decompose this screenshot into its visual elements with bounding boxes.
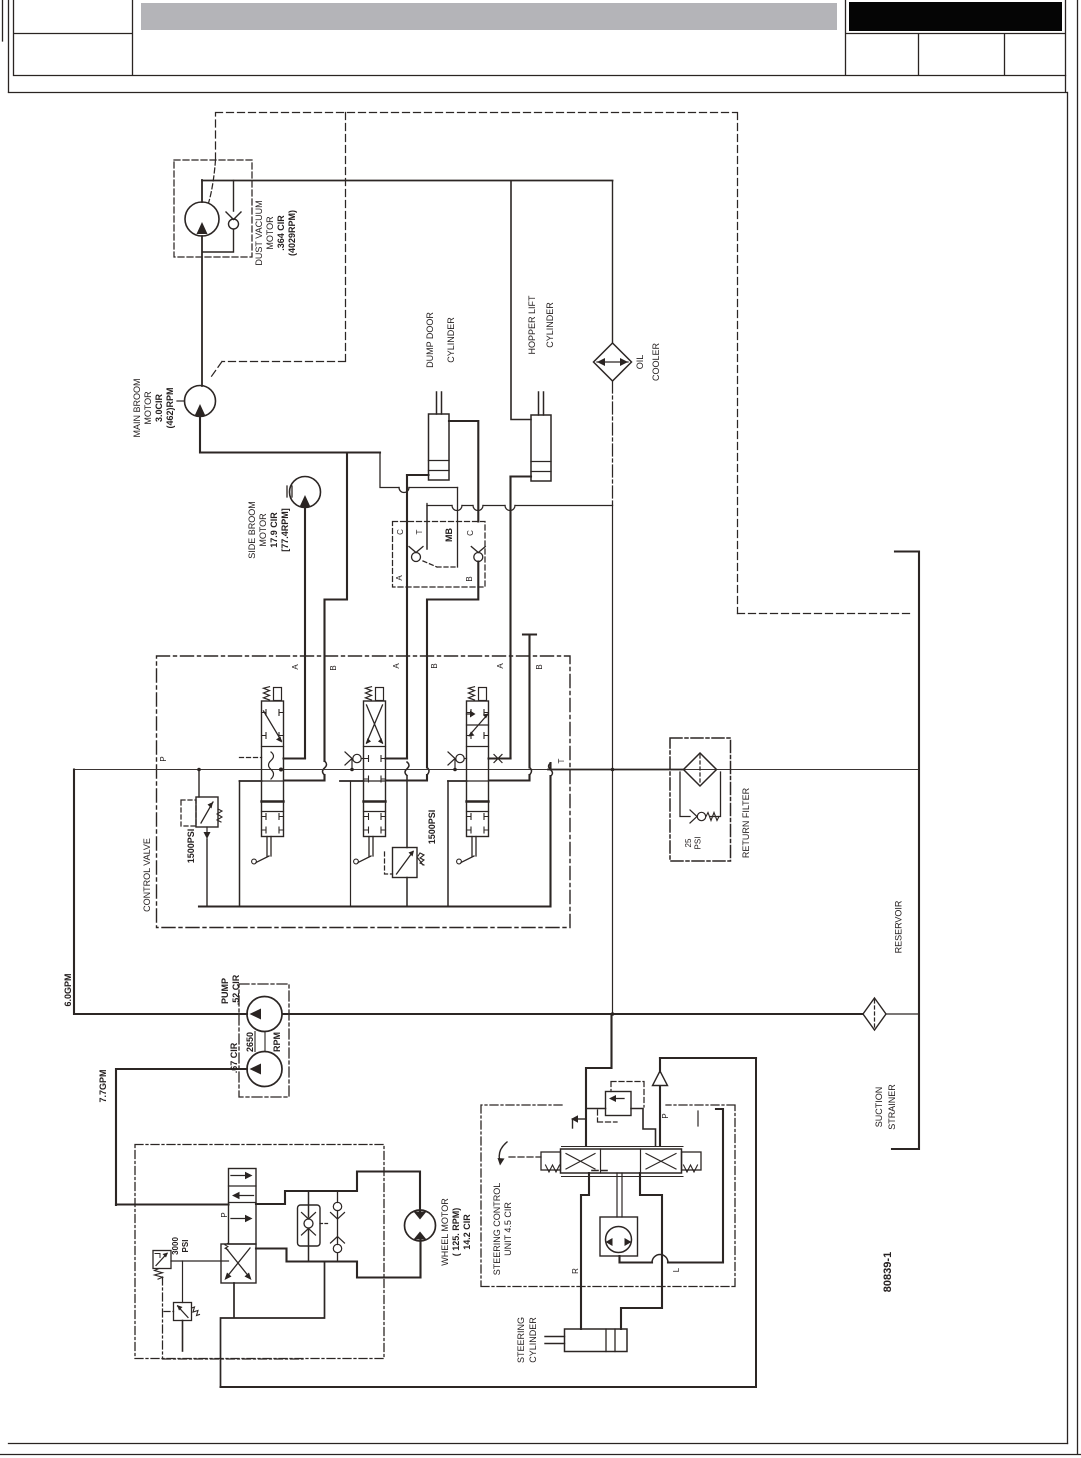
- svg-text:P: P: [159, 756, 168, 761]
- svg-text:MB: MB: [444, 528, 454, 542]
- svg-text:1500PSI: 1500PSI: [186, 829, 196, 864]
- wire side broom motor A line to valve: [304, 508, 306, 759]
- wire 7.7GPM supply into propel valve: [116, 1203, 229, 1205]
- wire hopper lift A line to valve3: [509, 477, 511, 759]
- tank drop valve3: [447, 781, 449, 907]
- svg-text:(4029RPM): (4029RPM): [287, 210, 297, 256]
- label steering cylinder: [516, 1317, 538, 1363]
- wire V3 port A with plug: [489, 757, 511, 759]
- svg-text:[77.4RPM]: [77.4RPM]: [280, 508, 290, 552]
- steering valve springs: [546, 1165, 560, 1172]
- svg-text:RESERVOIR: RESERVOIR: [894, 900, 904, 953]
- relief valve RV1 1500PSI: [198, 770, 200, 798]
- directional valve V2 (main broom) body: [364, 701, 386, 837]
- label side broom motor: [247, 501, 290, 559]
- directional valve V3 (hopper lift) body: [467, 701, 489, 837]
- svg-text:C: C: [466, 530, 475, 536]
- wire pump P2 outlet 7.7GPM line: [116, 1069, 247, 1205]
- wire V1 port A: [284, 757, 306, 759]
- steering metering gerotor: [617, 1173, 622, 1217]
- svg-text:PUMP: PUMP: [220, 978, 230, 1004]
- steering relief valve RV5: [606, 1092, 632, 1116]
- check valve CV3 (MB right, pilot operated): [474, 553, 483, 562]
- svg-text:17.9 CIR: 17.9 CIR: [269, 512, 279, 548]
- svg-text:.67 CIR: .67 CIR: [229, 1042, 239, 1073]
- label main broom motor: [132, 378, 175, 437]
- svg-text:2650: 2650: [245, 1032, 255, 1052]
- drawing area bottom border: [9, 1443, 1068, 1445]
- svg-text:14.2 CIR: 14.2 CIR: [462, 1214, 472, 1250]
- svg-text:B: B: [430, 663, 439, 668]
- svg-text:.364 CIR: .364 CIR: [276, 215, 286, 251]
- filter bypass check and spring: [680, 772, 721, 817]
- title bar grey redaction: [141, 3, 837, 30]
- svg-text:MOTOR: MOTOR: [258, 513, 268, 547]
- svg-text:PSI: PSI: [181, 1240, 190, 1253]
- svg-text:A: A: [395, 575, 404, 581]
- steering control valve V5 body: [561, 1149, 682, 1173]
- wire gerotor case drain: [620, 1109, 724, 1263]
- svg-text:WHEEL MOTOR: WHEEL MOTOR: [440, 1198, 450, 1266]
- svg-text:MAIN BROOM: MAIN BROOM: [132, 378, 142, 437]
- dump door cylinder C1: [429, 414, 450, 480]
- wire MB A line through manifold to valve2: [406, 475, 408, 759]
- svg-text:CYLINDER: CYLINDER: [446, 317, 456, 363]
- oil cooler HE1: [594, 343, 632, 381]
- svg-text:3.0CIR: 3.0CIR: [154, 393, 164, 422]
- svg-text:A: A: [496, 663, 505, 669]
- page outer border right: [1077, 0, 1079, 1454]
- svg-text:RETURN FILTER: RETURN FILTER: [741, 787, 751, 858]
- svg-text:CYLINDER: CYLINDER: [545, 302, 555, 348]
- tank drop valve2: [350, 781, 352, 907]
- svg-text:C: C: [396, 529, 405, 535]
- title block left cell: [14, 0, 1066, 76]
- MB manifold dashed box: [393, 522, 486, 588]
- svg-text:P: P: [220, 1212, 229, 1217]
- wire steering tank return top: [660, 1057, 756, 1059]
- svg-text:L: L: [672, 1267, 681, 1272]
- title block frame left border: [3, 0, 9, 92]
- check valve pair crossport: [337, 1191, 339, 1262]
- wire dust vacuum to oil cooler: [202, 180, 613, 182]
- check valve CV1 (dust vacuum bypass): [203, 181, 234, 253]
- svg-text:OIL: OIL: [635, 355, 645, 370]
- svg-text:SUCTION: SUCTION: [874, 1087, 884, 1128]
- svg-text:UNIT 4.5 CIR: UNIT 4.5 CIR: [503, 1202, 513, 1256]
- label hopper lift cylinder: [527, 295, 555, 355]
- label dust vacuum motor: [254, 200, 297, 265]
- svg-text:B: B: [329, 665, 338, 670]
- oil cooler outlet line (dash-dot then solid): [612, 381, 614, 505]
- suction line pump to reservoir: [283, 1013, 864, 1015]
- label dump door cylinder: [425, 312, 456, 368]
- wire MB B line down to valve2: [386, 562, 478, 781]
- anti-cavitation check valve CV6: [659, 1058, 661, 1146]
- wire main broom motor return: [200, 417, 380, 453]
- pilot dashed link between MB check valves: [423, 561, 458, 567]
- reservoir tank line: [892, 552, 919, 1150]
- wire MB T to check valve: [426, 506, 428, 550]
- steering cylinder C3: [565, 1329, 628, 1352]
- wire dump door branch into manifold C port: [457, 488, 459, 568]
- pump P2 (.67 CIR): [247, 1052, 282, 1087]
- svg-text:HOPPER LIFT: HOPPER LIFT: [527, 295, 537, 355]
- wire V3 port B plugged line: [489, 635, 536, 781]
- steering unit dash-dot boundary: [481, 1105, 735, 1287]
- suction strainer S1: [863, 998, 886, 1030]
- steering wheel input arrow: [499, 1142, 507, 1163]
- main broom motor M2: [185, 386, 216, 417]
- pilot dash-dot vent lines: [163, 1277, 304, 1359]
- side broom motor M3: [290, 477, 321, 508]
- pump shaft coupling: [255, 1032, 265, 1052]
- svg-text:3000: 3000: [171, 1237, 180, 1255]
- wheel motor M4: [405, 1210, 436, 1241]
- svg-text:T: T: [415, 529, 424, 534]
- check valve CV4 at V2 P port: [345, 752, 364, 770]
- wire dump door rod-end line: [449, 421, 478, 522]
- svg-text:P: P: [661, 1113, 670, 1118]
- svg-text:6.0GPM: 6.0GPM: [63, 973, 73, 1006]
- wire steering L line: [621, 1173, 662, 1329]
- label pump: [220, 974, 282, 1073]
- svg-text:80839-1: 80839-1: [882, 1252, 894, 1292]
- svg-text:STRAINER: STRAINER: [887, 1084, 897, 1130]
- shuttle valve block: [298, 1205, 321, 1246]
- check valve CV2 (MB left, pilot operated): [412, 553, 421, 562]
- wire propel tank line: [221, 1262, 325, 1388]
- wire V2 port A: [386, 757, 408, 759]
- steering box inner tick: [697, 1111, 699, 1126]
- return filter F1: [684, 753, 717, 786]
- vacuum fan circuit dashed enclosure top: [216, 113, 738, 614]
- relief valve RV4: [182, 1261, 184, 1303]
- wire pump P1 outlet 6.0GPM riser: [74, 770, 247, 1015]
- drawing area top border: [9, 92, 1068, 94]
- valve V2 manual lever: [358, 837, 373, 863]
- wire relief to valve: [171, 1260, 229, 1262]
- valve V4 spool arrows: [231, 1175, 246, 1177]
- valve V1 manual lever: [256, 837, 271, 863]
- svg-text:R: R: [571, 1268, 580, 1274]
- wire hop marks on dump door line: [399, 488, 409, 493]
- label wheel motor: [440, 1198, 472, 1266]
- wire propel B line: [256, 1241, 421, 1278]
- drawing area right border: [1067, 93, 1069, 1444]
- label oil cooler: [635, 342, 661, 381]
- svg-text:SIDE BROOM: SIDE BROOM: [247, 501, 257, 559]
- control valve assembly dash-dot boundary: [157, 656, 571, 928]
- label port letters: [291, 663, 544, 671]
- wire side broom B line: [284, 453, 347, 781]
- svg-text:( 125. RPM): ( 125. RPM): [451, 1208, 461, 1257]
- wire MB T line and jump-overs: [427, 504, 613, 506]
- node cooler line junction: [611, 768, 615, 772]
- label MB manifold ports: [395, 528, 475, 582]
- vacuum fan circuit dashed enclosure bottom run to reservoir: [738, 613, 911, 615]
- title block black bar: [849, 2, 1062, 31]
- svg-text:1500PSI: 1500PSI: [427, 810, 437, 845]
- pump assembly dash-dot box: [239, 984, 289, 1097]
- check valve CV5 at V3 P port: [448, 752, 467, 770]
- svg-text:B: B: [465, 576, 474, 581]
- svg-text:COOLER: COOLER: [651, 342, 661, 381]
- valve V4 crossover section: [221, 1244, 256, 1283]
- hopper lift cylinder C2: [531, 415, 551, 481]
- svg-text:DUMP DOOR: DUMP DOOR: [425, 312, 435, 368]
- svg-text:T: T: [557, 758, 566, 763]
- valve V3 manual lever: [461, 837, 476, 863]
- dust vacuum motor dashed box: [174, 160, 252, 257]
- wire steering R line: [581, 1173, 589, 1329]
- svg-text:CYLINDER: CYLINDER: [528, 1317, 538, 1363]
- svg-text:A: A: [291, 664, 300, 670]
- label 25 PSI: [684, 837, 703, 850]
- return filter dash-dot box: [670, 738, 731, 861]
- svg-text:RPM: RPM: [272, 1032, 282, 1052]
- relief valve RV2 1500PSI on A2: [405, 762, 409, 907]
- wire dust vacuum supply down: [201, 236, 203, 386]
- svg-text:7.7GPM: 7.7GPM: [98, 1069, 108, 1102]
- tank collector line: [199, 763, 551, 907]
- pressure line P from pump: [74, 769, 919, 771]
- svg-text:MOTOR: MOTOR: [265, 216, 275, 250]
- svg-text:CONTROL VALVE: CONTROL VALVE: [142, 838, 152, 912]
- svg-text:(462)RPM: (462)RPM: [165, 387, 175, 428]
- page outer border bottom: [0, 1454, 1081, 1456]
- dashed branch to main broom motor: [211, 113, 346, 378]
- svg-text:STEERING CONTROL: STEERING CONTROL: [492, 1183, 502, 1276]
- dashed curve into dust vacuum motor: [209, 160, 216, 203]
- svg-text:A: A: [392, 663, 401, 669]
- propel circuit dash-dot boundary: [135, 1145, 384, 1359]
- svg-text:MOTOR: MOTOR: [143, 391, 153, 425]
- directional valve V1 (side broom) body: [262, 701, 284, 837]
- svg-text:DUST VACUUM: DUST VACUUM: [254, 200, 264, 265]
- label R and L: [571, 1267, 681, 1274]
- dust vacuum motor M1: [185, 202, 219, 236]
- tank drop valve1: [239, 781, 241, 907]
- label 3000 PSI: [171, 1237, 190, 1255]
- propel valve V4 body: [229, 1169, 257, 1245]
- svg-text:B: B: [535, 664, 544, 669]
- label suction strainer: [874, 1084, 897, 1130]
- title block right cells: [846, 0, 1066, 92]
- node P junction at relief: [197, 768, 201, 772]
- tank arrow symbol: [574, 1118, 586, 1120]
- svg-text:STEERING: STEERING: [516, 1317, 526, 1363]
- svg-text:PSI: PSI: [694, 837, 703, 850]
- wire tank line to return filter: [548, 769, 684, 771]
- label steering control unit: [492, 1183, 513, 1276]
- wire steering supply from pump line: [586, 1014, 612, 1146]
- svg-text:25: 25: [684, 838, 693, 847]
- relief valve RV3 3000PSI pilot: [153, 1251, 171, 1269]
- pump P1 (.52 CIR): [247, 997, 282, 1032]
- svg-text:.52 CIR: .52 CIR: [231, 974, 241, 1005]
- wire main tank return bottom: [221, 1058, 757, 1387]
- wire propel A line: [256, 1172, 420, 1211]
